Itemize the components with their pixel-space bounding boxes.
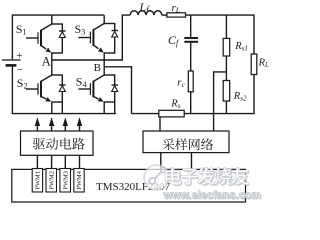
svg-text:PWM4: PWM4 bbox=[76, 170, 83, 189]
block: PWM2 output pin bbox=[46, 169, 57, 193]
wire: PWM4 to drive circuit bbox=[79, 155, 81, 168]
inductor Lf bbox=[130, 11, 162, 15]
node A wire to filter bbox=[52, 15, 130, 60]
wire: bottom DC bus bbox=[12, 113, 116, 115]
block: PWM4 output pin bbox=[74, 169, 84, 193]
svg-text:PWM2: PWM2 bbox=[48, 171, 55, 189]
wire: PWM1 to drive circuit bbox=[36, 155, 38, 168]
wire: gate drive arrow 1 bbox=[36, 124, 38, 132]
transistor S1 (IGBT with freewheel diode) bbox=[51, 15, 53, 25]
wire: output return rail bbox=[132, 113, 159, 115]
wire: gate drive arrow 2 bbox=[51, 124, 53, 132]
capacitor Cf bbox=[184, 37, 198, 39]
transistor S3 (IGBT with freewheel diode) bbox=[103, 15, 105, 24]
wire: gate drive arrow 4 bbox=[79, 124, 81, 132]
resistor Rs1 bbox=[223, 38, 230, 56]
wire top node down to RL bbox=[253, 15, 255, 55]
block: sampling network 采样网络 bbox=[143, 131, 229, 153]
wire Rs1 to Rs2 bbox=[225, 56, 227, 81]
wire Rs2 to return rail bbox=[225, 101, 227, 114]
label 采样网络 bbox=[162, 138, 174, 150]
wire rc to return rail bbox=[190, 92, 192, 114]
block: PWM3 output pin bbox=[60, 169, 71, 193]
wire: PWM3 to drive circuit bbox=[64, 155, 66, 168]
wire: top DC bus bbox=[12, 14, 104, 16]
svg-text:B: B bbox=[94, 62, 101, 74]
wire rL to load column bbox=[186, 14, 255, 16]
svg-text:−: − bbox=[17, 64, 23, 76]
svg-text:PWM1: PWM1 bbox=[35, 171, 42, 189]
wire Cf to rc bbox=[190, 43, 192, 71]
block: drive circuit 驱动电路 bbox=[21, 131, 94, 155]
wire: current sense tap to sampling network bbox=[159, 117, 161, 131]
battery V1 (DC source) bbox=[11, 15, 13, 60]
resistor RL (load) bbox=[251, 54, 257, 75]
wire: sampling output 1 to DSP bbox=[160, 153, 162, 170]
svg-text:+: + bbox=[16, 50, 22, 62]
resistor Rs (current sense) bbox=[159, 110, 184, 117]
node B wire to return rail bbox=[104, 67, 131, 114]
node: divider tap wire to sampling network bbox=[214, 72, 227, 131]
svg-text:www.elecfans.com: www.elecfans.com bbox=[163, 190, 262, 202]
wire RL to return rail bbox=[253, 75, 255, 115]
resistor rL (inductor ESR) bbox=[167, 13, 186, 17]
label 驱动电路 bbox=[33, 138, 45, 150]
watermark elecfans logo+text bbox=[144, 165, 169, 190]
block: PWM1 output pin bbox=[32, 169, 42, 193]
svg-text:PWM3: PWM3 bbox=[62, 171, 69, 189]
wire: sampling output 2 to DSP bbox=[191, 153, 193, 170]
wire Lf to rL bbox=[162, 14, 167, 16]
wire top node to Cf bbox=[190, 15, 192, 37]
wire: PWM2 to drive circuit bbox=[51, 155, 53, 168]
transistor S4 (IGBT with freewheel diode) bbox=[103, 67, 105, 76]
resistor Rs2 bbox=[223, 81, 230, 102]
block: DSP TMS320LF2407 bbox=[12, 169, 246, 202]
resistor rc (capacitor ESR) bbox=[188, 71, 193, 92]
svg-text:A: A bbox=[42, 55, 51, 69]
wire: gate drive arrow 3 bbox=[64, 124, 66, 132]
wire top node to Rs1 bbox=[225, 15, 227, 38]
transistor S2 (IGBT with freewheel diode) bbox=[51, 60, 53, 76]
